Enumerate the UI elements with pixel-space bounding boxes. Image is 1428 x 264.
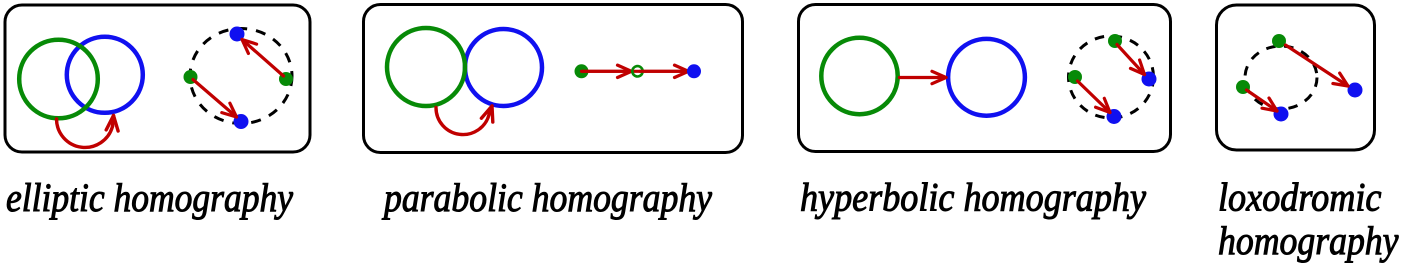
red arrow top-to-right (loxodromic): [1286, 45, 1349, 86]
blue circle (hyperbolic image): [948, 39, 1025, 116]
red arrow right-to-top (elliptic): [242, 40, 284, 77]
dashed invariant circle (elliptic): [190, 29, 292, 124]
blue point (parabolic axis right): [687, 64, 701, 78]
red end arrowhead (parabolic): [640, 65, 689, 77]
svg-text:loxodromic: loxodromic: [1218, 175, 1382, 220]
green point top (hyperbolic): [1108, 34, 1122, 48]
box: parabolic homography frame: [364, 5, 743, 153]
blue circle (parabolic image): [465, 29, 542, 106]
green fixed-point ring (parabolic): [632, 66, 642, 76]
red arrow left-to-bottom (hyperbolic): [1078, 81, 1111, 113]
blue point bottom (loxodromic): [1274, 107, 1289, 122]
red arrow left-to-bottom (elliptic): [193, 80, 237, 118]
blue point bottom: [234, 114, 249, 129]
red loop arrow (parabolic): [436, 106, 493, 135]
green fixed point right: [279, 72, 293, 86]
red arrow between circles (hyperbolic): [900, 71, 947, 83]
red mid arrowhead (parabolic): [582, 65, 632, 77]
green fixed point left: [184, 70, 198, 84]
dashed circle (hyperbolic): [1069, 36, 1154, 118]
green point left (hyperbolic): [1068, 70, 1082, 84]
svg-text:hyperbolic homography: hyperbolic homography: [800, 175, 1146, 220]
blue circle (elliptic image): [67, 37, 143, 113]
dashed circle (loxodromic): [1245, 46, 1317, 109]
blue point right (loxodromic): [1348, 83, 1363, 98]
green circle (parabolic source): [387, 28, 465, 106]
svg-text:homography: homography: [1218, 218, 1399, 263]
green point top (loxodromic): [1272, 34, 1286, 48]
red arrow left-to-bottom (loxodromic): [1247, 90, 1278, 111]
green point left (loxodromic): [1236, 80, 1250, 94]
red loop arrow (elliptic): [57, 116, 119, 148]
red axis line (parabolic): [582, 70, 695, 73]
green circle (elliptic source): [19, 40, 98, 119]
svg-text:parabolic homography: parabolic homography: [381, 175, 712, 220]
box: loxodromic homography frame: [1217, 5, 1375, 150]
green point (parabolic axis left): [575, 64, 589, 78]
red arrow top-to-right (hyperbolic): [1117, 45, 1145, 75]
box: hyperbolic homography frame: [799, 5, 1171, 152]
blue point bottom (hyperbolic): [1107, 109, 1122, 124]
blue point right (hyperbolic): [1142, 72, 1157, 87]
box: elliptic homography frame: [5, 5, 310, 152]
svg-text:elliptic homography: elliptic homography: [6, 175, 293, 220]
green circle (hyperbolic source): [821, 38, 897, 114]
blue point top: [230, 27, 245, 42]
